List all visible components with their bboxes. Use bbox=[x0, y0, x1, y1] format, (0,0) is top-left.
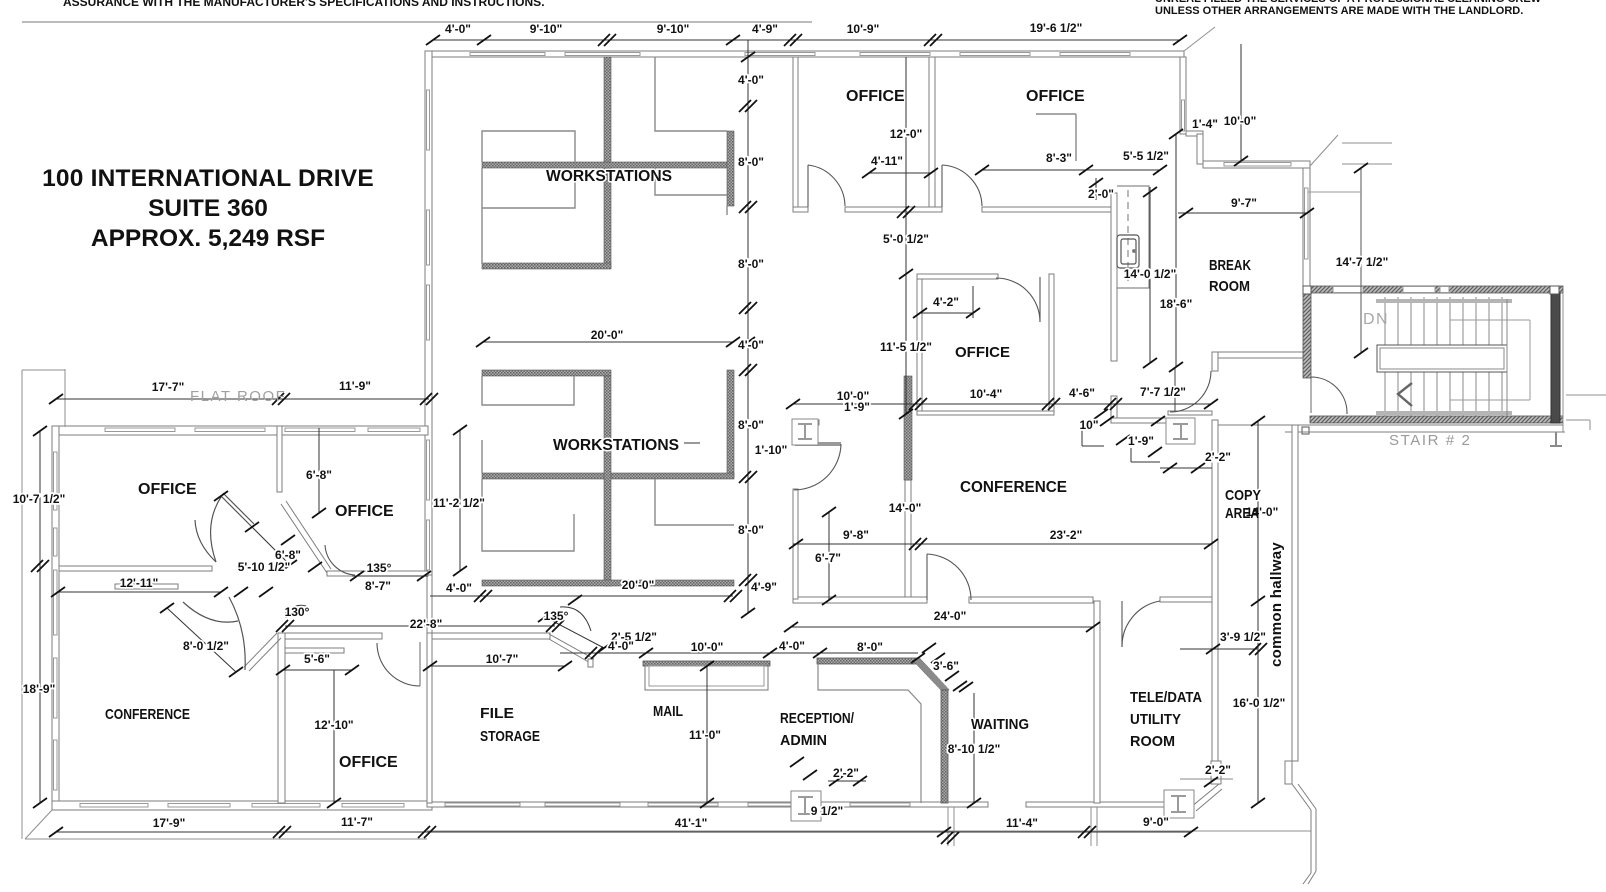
stair: lower flight treads bbox=[1385, 372, 1502, 416]
wall: vestibule south wall east part bbox=[1168, 411, 1212, 415]
partition: lower cluster top band (hatched) bbox=[482, 370, 611, 376]
svg-text:8'-0": 8'-0" bbox=[857, 640, 883, 654]
dim line: flat roof 17'-7 / 11'-9 bbox=[56, 398, 429, 400]
wall: small office left bbox=[917, 274, 922, 415]
dim line: 22'-8 bbox=[285, 625, 555, 627]
svg-text:2'-0": 2'-0" bbox=[1088, 187, 1114, 201]
door: tele/data room bbox=[1121, 601, 1123, 647]
counter body bbox=[645, 666, 768, 690]
roof edge: upper-left step vertical bbox=[64, 369, 66, 427]
dim line: 14'-0.5 kitchen vertical bbox=[1149, 187, 1151, 363]
dim line: 8'-10.5 vertical bbox=[973, 693, 975, 803]
svg-text:8'-10 1/2": 8'-10 1/2" bbox=[948, 742, 1001, 756]
stair: corner column blocks bbox=[1303, 286, 1311, 294]
svg-text:20'-0": 20'-0" bbox=[591, 328, 624, 342]
door arc: office1 angled door swing bbox=[211, 497, 221, 562]
wall: office1 left (top wing) bbox=[793, 57, 798, 207]
svg-text:common hallway: common hallway bbox=[1268, 542, 1285, 667]
svg-text:3'-9 1/2": 3'-9 1/2" bbox=[1220, 630, 1266, 644]
wall: conference bottom west of door bbox=[793, 597, 927, 603]
wall: top exterior (workstation wing) bbox=[426, 51, 1184, 57]
wall: bottom exterior right of entry bbox=[1026, 802, 1191, 807]
dim line: 16'-0.5 hallway vertical bbox=[1257, 421, 1259, 803]
svg-text:130°: 130° bbox=[285, 605, 310, 619]
svg-text:1'-9": 1'-9" bbox=[1128, 434, 1154, 448]
svg-text:20'-0": 20'-0" bbox=[622, 578, 655, 592]
svg-text:18'-6": 18'-6" bbox=[1160, 297, 1193, 311]
wall: offices bottom to kitchen bbox=[982, 207, 1111, 212]
dim line: left wing vertical 10'-7.5 / 18'-9 bbox=[39, 431, 41, 803]
cubicle lines upper cluster bbox=[482, 57, 727, 264]
svg-text:APPROX. 5,249 RSF: APPROX. 5,249 RSF bbox=[91, 225, 325, 252]
dim line: 2'-2 copy nook bbox=[1160, 467, 1212, 469]
wall: hallway east lower vertical bbox=[1310, 810, 1312, 873]
wall: bottom-right diagonal jog bbox=[1191, 784, 1219, 807]
svg-text:4'-0": 4'-0" bbox=[608, 639, 634, 653]
svg-text:4'-2": 4'-2" bbox=[933, 295, 959, 309]
stair: upper flight treads bbox=[1385, 297, 1502, 345]
wall: tele/data west bbox=[1094, 601, 1100, 803]
common hallway walls bbox=[1211, 293, 1606, 884]
partition: lower cluster bottom band (hatched) bbox=[482, 580, 734, 586]
building outline right of stair bbox=[1562, 293, 1564, 432]
wall: lower office west bbox=[278, 633, 285, 803]
svg-text:9 1/2": 9 1/2" bbox=[811, 804, 843, 818]
wall: tele/data top east of door bbox=[1160, 597, 1212, 602]
sink bbox=[1117, 235, 1139, 268]
svg-text:4'-0": 4'-0" bbox=[445, 22, 471, 36]
svg-text:6'-8": 6'-8" bbox=[306, 468, 332, 482]
roof edge: bottom horizontal bbox=[25, 838, 427, 840]
dim line: 12'-11 bbox=[58, 591, 221, 593]
wall: small office top bbox=[917, 274, 998, 279]
wall: corridor south wall (file storage top) bbox=[432, 633, 550, 639]
svg-text:11'-7": 11'-7" bbox=[341, 815, 373, 829]
svg-text:8'-0": 8'-0" bbox=[738, 155, 764, 169]
dimension lines bbox=[40, 40, 1361, 832]
svg-text:4'-0": 4'-0" bbox=[738, 73, 764, 87]
workstations lower cluster bbox=[482, 370, 912, 586]
partition: upper cluster mid horizontal (hatched) bbox=[482, 162, 733, 168]
stair: enclosure bottom wall (hatched) bbox=[1310, 416, 1563, 423]
svg-text:14'-0": 14'-0" bbox=[889, 501, 922, 515]
svg-text:11'-4": 11'-4" bbox=[1006, 816, 1038, 830]
wall: break room south wall bbox=[1216, 352, 1306, 358]
roof edge: lines right of break room bevel bbox=[1342, 142, 1392, 144]
window: break room right wall bbox=[1305, 188, 1309, 259]
svg-text:14'-7 1/2": 14'-7 1/2" bbox=[1336, 255, 1389, 269]
svg-text:9'-0": 9'-0" bbox=[1143, 815, 1169, 829]
svg-text:5'-6": 5'-6" bbox=[304, 652, 330, 666]
svg-text:4'-11": 4'-11" bbox=[871, 154, 903, 168]
angled vestibule (left wing) bbox=[183, 493, 277, 670]
kitchen counter (break room) bbox=[1117, 186, 1149, 288]
door: break room / vestibule bbox=[1174, 367, 1176, 411]
svg-text:AREA: AREA bbox=[1225, 505, 1259, 522]
wall: hallway below stair line2 bbox=[1285, 431, 1565, 433]
svg-text:17'-9": 17'-9" bbox=[153, 816, 186, 830]
svg-text:10'-0": 10'-0" bbox=[1224, 114, 1257, 128]
svg-text:24'-0": 24'-0" bbox=[934, 609, 967, 623]
wall: lower office top bbox=[283, 648, 344, 653]
roof edge: bottom-left bevel bbox=[25, 810, 52, 839]
svg-text:11'-9": 11'-9" bbox=[339, 379, 371, 393]
svg-text:8'-0": 8'-0" bbox=[738, 418, 764, 432]
stair: enclosure right wall (dark) bbox=[1551, 293, 1560, 423]
wall: offices bottom between doors bbox=[845, 207, 942, 212]
window: left wing top wall segments bbox=[105, 428, 175, 432]
dim line: 2'-2 reception bbox=[828, 780, 866, 782]
counter inner outline bbox=[818, 664, 921, 803]
dim line: conference top 10'-0/1'-9/10'-4/4'-6/7'-7.5 bbox=[793, 403, 1211, 405]
svg-text:7'-7 1/2": 7'-7 1/2" bbox=[1140, 385, 1186, 399]
svg-text:8'-0": 8'-0" bbox=[738, 523, 764, 537]
dim: 8'-0 1/2 diagonal dim line bbox=[167, 608, 236, 672]
wall: 1'-4 jog horizontal bbox=[1186, 131, 1203, 136]
door: lower office bbox=[419, 642, 421, 686]
dimension texts bbox=[13, 21, 1389, 830]
wall: hallway below stair line1 bbox=[1218, 424, 1563, 426]
wall: left exterior of workstation wing bbox=[425, 51, 432, 575]
svg-text:9'-10": 9'-10" bbox=[530, 22, 563, 36]
dim line: reception/mail 4'-0/10'-0/4'-0/8'-0 bbox=[560, 652, 918, 654]
svg-text:19'-6 1/2": 19'-6 1/2" bbox=[1030, 21, 1083, 35]
partition: upper cluster bottom band (hatched) bbox=[482, 263, 611, 269]
leader line from label bbox=[684, 442, 700, 444]
svg-text:UNLESS OTHER ARRANGEMENTS ARE: UNLESS OTHER ARRANGEMENTS ARE MADE WITH … bbox=[1155, 5, 1523, 17]
roof edge: left vertical bbox=[21, 370, 23, 839]
svg-text:12'-0": 12'-0" bbox=[890, 127, 923, 141]
door: small office leaf+arc bbox=[1039, 277, 1041, 322]
wall: conference bottom east of door / corridor wall bbox=[969, 597, 1093, 603]
door arc: lower pair bbox=[183, 602, 238, 622]
window: main bottom wall segments bbox=[445, 803, 520, 806]
window: left wing bottom wall segments bbox=[80, 804, 148, 808]
svg-text:FLAT ROOF: FLAT ROOF bbox=[190, 388, 286, 405]
wall: hallway east bottom jog bbox=[1303, 873, 1311, 884]
door leaf: lower angled door bbox=[244, 633, 277, 667]
tick marks bbox=[31, 34, 1368, 844]
svg-text:135°: 135° bbox=[544, 609, 569, 623]
doors bbox=[325, 165, 1347, 686]
svg-text:4'-0": 4'-0" bbox=[779, 639, 805, 653]
dim line: 11'-0 vertical bbox=[706, 666, 708, 803]
wall: office1 right (left wing) bbox=[277, 426, 282, 492]
wall: stub below office1 bbox=[115, 584, 178, 589]
dim line: 6'-7 vertical bbox=[828, 512, 830, 600]
svg-text:2'-2": 2'-2" bbox=[833, 766, 859, 780]
dim line: 4'-2 bbox=[920, 312, 973, 314]
svg-text:RECEPTION/: RECEPTION/ bbox=[780, 710, 855, 727]
dim line: 20'-0 upper bbox=[483, 341, 733, 343]
svg-text:5'-10 1/2": 5'-10 1/2" bbox=[238, 560, 291, 574]
svg-text:OFFICE: OFFICE bbox=[335, 503, 394, 520]
column: I-beam at entry (left) bbox=[791, 791, 821, 821]
svg-text:ADMIN: ADMIN bbox=[780, 732, 827, 749]
dim line: 5'-0.5 / 11'-5.5 vertical bbox=[905, 212, 907, 414]
roof edge: break room corner bevel bbox=[1310, 135, 1338, 166]
wall: break room right exterior (to stair vestibule) bbox=[1303, 168, 1310, 293]
svg-text:1'-4": 1'-4" bbox=[1192, 117, 1218, 131]
svg-text:14'-0 1/2": 14'-0 1/2" bbox=[1124, 267, 1177, 281]
dim line: 5'-6 lower office bbox=[283, 669, 352, 671]
wall: hallway east recess notch bbox=[1285, 761, 1292, 784]
dim line: 8'-7 bbox=[352, 575, 428, 577]
svg-text:UTILITY: UTILITY bbox=[1130, 711, 1181, 728]
dim line: 6'-8 vertical (middle office) bbox=[318, 428, 320, 513]
wall: reception west bbox=[793, 489, 798, 599]
wall: office1/office2 divider bbox=[929, 57, 935, 212]
svg-text:OFFICE: OFFICE bbox=[1026, 88, 1085, 105]
wall: vestibule south wall west part bbox=[1111, 418, 1168, 423]
dim line: 2'-2 tele/data bbox=[1180, 778, 1233, 780]
svg-text:11'-5 1/2": 11'-5 1/2" bbox=[880, 340, 932, 354]
wall: entry jamb lines below bottom wall (left) bbox=[947, 807, 949, 846]
roof edge: upper-left step horizontal bbox=[22, 369, 65, 371]
stair: lower nosing band bbox=[1376, 411, 1512, 415]
dim line: 10 inch bracket bbox=[1081, 428, 1083, 446]
svg-text:4'-0": 4'-0" bbox=[446, 581, 472, 595]
svg-text:CONFERENCE: CONFERENCE bbox=[960, 479, 1067, 496]
window: top wall segments bbox=[470, 53, 545, 56]
svg-text:10'-9": 10'-9" bbox=[847, 22, 880, 36]
window: break room top wall bbox=[1224, 163, 1291, 167]
dim line: 9'-7 break room bbox=[1178, 212, 1307, 214]
partition: conference west wall top (hatched) bbox=[904, 376, 912, 480]
column: I-beam at tele/data SE bbox=[1164, 790, 1194, 818]
svg-text:COPY: COPY bbox=[1225, 487, 1261, 504]
door: office2 (top) leaf+arc bbox=[941, 165, 943, 207]
column: I-beam at reception NW bbox=[792, 419, 818, 445]
dim line: 12'-10 vertical bbox=[333, 670, 335, 803]
svg-text:ROOM: ROOM bbox=[1209, 278, 1250, 295]
svg-text:10'-7": 10'-7" bbox=[486, 652, 519, 666]
svg-text:ROOM: ROOM bbox=[1130, 733, 1175, 750]
door arc: second swing bbox=[195, 520, 216, 562]
stair: upper nosing band bbox=[1376, 299, 1512, 303]
wall: corridor diagonal jog bbox=[549, 634, 594, 659]
counter hatched band horizontal bbox=[817, 658, 919, 664]
wall: left wing bottom exterior bbox=[52, 801, 432, 810]
svg-text:OFFICE: OFFICE bbox=[846, 88, 905, 105]
dim line: 18'-6 vertical bbox=[1175, 134, 1177, 367]
svg-text:MAIL: MAIL bbox=[653, 703, 683, 720]
svg-text:10'-0": 10'-0" bbox=[691, 640, 724, 654]
wall: kitchen west wall lower stub bbox=[1111, 396, 1117, 421]
dim line: 10'-7 file storage bbox=[430, 665, 565, 667]
wall: conference(left wing) NE diagonal bbox=[244, 633, 277, 667]
svg-text:10": 10" bbox=[1079, 418, 1098, 432]
door: reception NW corner bbox=[795, 442, 841, 446]
svg-text:8'-3": 8'-3" bbox=[1046, 151, 1072, 165]
svg-text:FILE: FILE bbox=[480, 705, 514, 722]
window: office2 right wall bbox=[1182, 100, 1185, 131]
svg-text:18'-9": 18'-9" bbox=[23, 682, 56, 696]
wall: suite right exterior along common hallway bbox=[1212, 420, 1218, 783]
svg-text:BREAK: BREAK bbox=[1209, 257, 1251, 274]
dim line: 2'-5.5 diagonal bbox=[545, 617, 604, 648]
wall: small office right bbox=[1049, 274, 1054, 415]
wall: middle office bottom bbox=[327, 571, 428, 576]
svg-text:22'-8": 22'-8" bbox=[410, 617, 443, 631]
svg-text:17'-7": 17'-7" bbox=[152, 380, 185, 394]
dim line: 4'-11 / 8'-3 / 5'-5.5 bbox=[869, 172, 931, 174]
wall: break room south jog vertical bbox=[1212, 352, 1218, 371]
partition: lower cluster mid horizontal (hatched) bbox=[482, 473, 734, 479]
svg-text:9'-8": 9'-8" bbox=[843, 528, 869, 542]
door leaf: office1 angled door bbox=[221, 496, 252, 527]
svg-text:4'-9": 4'-9" bbox=[751, 580, 777, 594]
wall: left wing left exterior bbox=[52, 426, 59, 810]
svg-text:10'-4": 10'-4" bbox=[970, 387, 1003, 401]
partition: upper cluster center vertical (hatched) bbox=[604, 57, 611, 268]
wall: office2 right exterior top bbox=[1180, 57, 1186, 134]
wall: hallway east diagonal bbox=[1292, 784, 1311, 810]
roof edge: bottom horizontal right portion bbox=[427, 830, 1311, 832]
svg-text:6'-7": 6'-7" bbox=[815, 551, 841, 565]
dim: 5'-10 1/2 diagonal dim line bbox=[252, 527, 290, 565]
reception counter bbox=[817, 658, 948, 803]
svg-text:WORKSTATIONS: WORKSTATIONS bbox=[553, 437, 679, 454]
dim line: right column of workstation dims bbox=[747, 40, 749, 613]
cubicle lines lower cluster bbox=[482, 376, 734, 551]
stair: inner wall lines bbox=[1506, 299, 1508, 416]
stair: center landing rail bbox=[1377, 345, 1507, 372]
svg-text:41'-1": 41'-1" bbox=[675, 816, 708, 830]
counter hatched band diagonal bbox=[916, 659, 947, 692]
counter hatched band vertical bbox=[941, 690, 948, 803]
partition: lower cluster right vertical (hatched) bbox=[727, 370, 734, 477]
dim line: conference 9'-8 / 23'-2 bbox=[793, 543, 1211, 545]
wall: offices bottom, left jamb bbox=[793, 207, 808, 212]
partition: lower cluster center vertical (hatched) bbox=[604, 376, 611, 586]
wall: 1'-4 jog vertical bbox=[1197, 134, 1203, 164]
stair: enclosure top wall (hatched) bbox=[1310, 286, 1563, 293]
dim line: 3'-9.5 bbox=[1180, 648, 1258, 650]
svg-text:ASSURANCE WITH THE MANUFACTURE: ASSURANCE WITH THE MANUFACTURER'S SPECIF… bbox=[63, 0, 545, 9]
workstations upper cluster bbox=[482, 57, 734, 269]
wall: office1 bottom bbox=[59, 566, 212, 571]
dim line: 1'-9 bracket bbox=[1130, 448, 1132, 462]
svg-text:1'-9": 1'-9" bbox=[844, 400, 870, 414]
counter top hatched band bbox=[643, 661, 770, 666]
arc: 130 deg marker bbox=[287, 605, 306, 612]
dim line: 11'-2.5 vertical bbox=[459, 430, 461, 571]
svg-text:8'-7": 8'-7" bbox=[365, 579, 391, 593]
svg-text:4'-6": 4'-6" bbox=[1069, 386, 1095, 400]
wall: reception NW stub bbox=[793, 420, 819, 425]
partition: upper cluster right vertical (hatched) bbox=[727, 131, 734, 206]
svg-text:3'-6": 3'-6" bbox=[933, 659, 959, 673]
stair: enclosure left wall (hatched) bbox=[1303, 293, 1311, 378]
stair: dim leader 14'-7 1/2 vertical bbox=[1360, 168, 1362, 353]
wall: break room top exterior bbox=[1203, 161, 1310, 168]
svg-text:SUITE 360: SUITE 360 bbox=[148, 195, 268, 222]
svg-text:100 INTERNATIONAL DRIVE: 100 INTERNATIONAL DRIVE bbox=[42, 165, 374, 192]
svg-text:5'-0 1/2": 5'-0 1/2" bbox=[883, 232, 929, 246]
svg-text:OFFICE: OFFICE bbox=[955, 344, 1010, 361]
dim line: top overall bbox=[433, 39, 1180, 41]
arc: 135 deg at corridor jog bbox=[560, 607, 591, 631]
wall: file storage west bbox=[427, 633, 432, 803]
svg-text:WAITING: WAITING bbox=[971, 716, 1029, 733]
mail counter bbox=[643, 661, 770, 690]
stair: window gaps in top wall bbox=[1333, 287, 1363, 293]
svg-text:11'-2 1/2": 11'-2 1/2" bbox=[433, 496, 485, 510]
svg-text:135°: 135° bbox=[367, 561, 392, 575]
wall: main bottom exterior (file storage to waiting) bbox=[427, 802, 988, 807]
stair: down arrow bbox=[1398, 383, 1412, 406]
wall: kitchen west wall bbox=[1111, 193, 1117, 361]
wall: corridor jog jamb bbox=[588, 659, 593, 667]
column: I-beam at vestibule/copy nook bbox=[1166, 418, 1195, 444]
svg-text:STAIR # 2: STAIR # 2 bbox=[1389, 432, 1471, 449]
svg-text:OFFICE: OFFICE bbox=[339, 754, 398, 771]
svg-text:4'-0": 4'-0" bbox=[738, 338, 764, 352]
svg-text:OFFICE: OFFICE bbox=[138, 481, 197, 498]
wall: hallway east side bbox=[1292, 425, 1298, 761]
svg-text:23'-2": 23'-2" bbox=[1050, 528, 1083, 542]
column mark below stair right bbox=[1555, 432, 1557, 446]
svg-text:9'-10": 9'-10" bbox=[657, 22, 690, 36]
svg-text:TELE/DATA: TELE/DATA bbox=[1130, 689, 1202, 706]
stair #2 bbox=[1302, 168, 1563, 449]
svg-text:9'-7": 9'-7" bbox=[1231, 196, 1257, 210]
window: workstation wing left wall segments bbox=[427, 90, 430, 150]
wall: entry jamb lines below bottom wall (right) bbox=[1090, 807, 1092, 846]
wall: left wing top exterior bbox=[52, 426, 428, 435]
svg-text:11'-0": 11'-0" bbox=[689, 728, 721, 742]
svg-text:12'-11": 12'-11" bbox=[120, 576, 159, 590]
svg-text:WORKSTATIONS: WORKSTATIONS bbox=[546, 168, 672, 185]
wall: middle office west diagonal bbox=[281, 504, 327, 573]
wall: workstation wing left, lower segment bbox=[427, 575, 432, 633]
dim line: 20'-0 lower bbox=[430, 595, 733, 597]
door: stair enclosure bbox=[1310, 377, 1312, 413]
window: left wing left wall segments bbox=[54, 452, 58, 510]
door: conference south leaf+arc bbox=[926, 554, 928, 600]
svg-text:4'-9": 4'-9" bbox=[752, 22, 778, 36]
wall: conference west bbox=[905, 480, 911, 600]
svg-text:5'-5 1/2": 5'-5 1/2" bbox=[1123, 149, 1169, 163]
dim line: 14'-7.5 top tick line bbox=[1308, 191, 1361, 193]
svg-text:12'-10": 12'-10" bbox=[314, 718, 353, 732]
svg-text:STORAGE: STORAGE bbox=[480, 728, 540, 745]
dim line: 2'-0 kitchen bbox=[1095, 178, 1097, 200]
svg-text:2'-2": 2'-2" bbox=[1205, 763, 1231, 777]
door: middle office bbox=[325, 545, 355, 575]
svg-text:DN: DN bbox=[1363, 311, 1389, 328]
svg-text:CONFERENCE: CONFERENCE bbox=[105, 706, 190, 723]
svg-text:1'-10": 1'-10" bbox=[755, 443, 788, 457]
dim line: office 12'-0 vertical bbox=[905, 57, 907, 212]
door recess on suite right wall bbox=[1211, 761, 1221, 784]
horizontal rule under disclaimer bbox=[22, 21, 812, 23]
door: office1 (top) leaf+arc bbox=[807, 165, 809, 207]
wall: small office bottom bbox=[917, 411, 1054, 415]
dim line: bottom overall bbox=[56, 831, 1191, 833]
roof edge: top-right corner bevel bbox=[1184, 27, 1215, 51]
svg-text:8'-0": 8'-0" bbox=[738, 257, 764, 271]
wall: office2 closet nook bbox=[1036, 113, 1076, 115]
svg-text:8'-0 1/2": 8'-0 1/2" bbox=[183, 639, 229, 653]
svg-text:2'-2": 2'-2" bbox=[1205, 450, 1231, 464]
svg-text:16'-0 1/2": 16'-0 1/2" bbox=[1233, 696, 1286, 710]
wall: corridor south wall (vestibule to file storage door) bbox=[285, 633, 382, 639]
svg-text:10'-7 1/2": 10'-7 1/2" bbox=[13, 492, 66, 506]
dim line: corridor 24'-0 bbox=[791, 626, 1093, 628]
dim line: 10'-0 notch vertical bbox=[1240, 44, 1242, 161]
